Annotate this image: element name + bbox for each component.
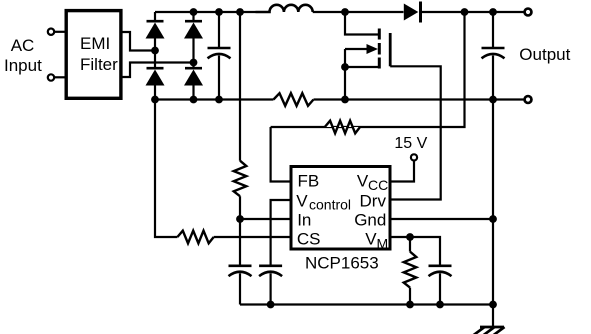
bridge diode D2 (left lower) bbox=[146, 68, 165, 85]
EMI filter block bbox=[66, 11, 121, 99]
op-amp U1 NCP1653 controller bbox=[291, 167, 390, 252]
wire D4 anode to return rail bbox=[192, 86, 194, 100]
capacitor C5 (VM) bbox=[429, 266, 452, 305]
wire FB divider from top rail bbox=[271, 12, 465, 127]
resistor R3 (feedback, drawn over wire) bbox=[325, 121, 360, 134]
15V supply terminal bbox=[411, 154, 417, 160]
wire In node down to C4 bbox=[239, 219, 241, 266]
AC input terminal bottom bbox=[48, 74, 54, 80]
wire ground rail bbox=[240, 303, 493, 305]
output terminal top bbox=[525, 9, 532, 16]
junction Q1 source / return rail bbox=[341, 96, 349, 104]
wire C2 return down to IC ground net bbox=[492, 100, 494, 305]
svg-text:control: control bbox=[309, 197, 351, 213]
chassis ground symbol bbox=[473, 327, 505, 334]
resistor R2 (current sense shunt, return rail) bbox=[274, 93, 314, 106]
output terminal bottom bbox=[525, 96, 532, 103]
capacitor C4 (In pin filter) bbox=[229, 266, 252, 305]
svg-text:AC: AC bbox=[11, 36, 35, 55]
wire top rail (rectified bus to output) bbox=[155, 11, 256, 13]
junction ground rail / C3 bbox=[267, 301, 275, 309]
junction top rail / C1 bbox=[215, 8, 223, 16]
wire Q1 gate to Drv pin bbox=[390, 66, 441, 199]
wire EMI filter lower output to bridge node B bbox=[120, 63, 191, 78]
svg-text:M: M bbox=[377, 236, 389, 252]
transistor Q1 body arrow bbox=[345, 44, 378, 54]
svg-text:In: In bbox=[297, 211, 311, 230]
resistor R4 (CS pin) bbox=[177, 231, 213, 244]
junction return rail / D4 bbox=[190, 96, 198, 104]
junction Q1 source / body bbox=[341, 63, 349, 71]
wire AC top terminal to EMI filter bbox=[54, 31, 66, 33]
capacitor C1 (rectified bus filter) bbox=[208, 12, 231, 100]
bridge diode D1 (left upper) bbox=[146, 12, 165, 39]
svg-text:V: V bbox=[365, 230, 377, 249]
junction ground rail / C5 bbox=[436, 301, 444, 309]
bridge diode D4 (right lower) bbox=[184, 68, 203, 85]
junction top rail / D3 cathode bbox=[190, 8, 198, 16]
AC input terminal top bbox=[48, 29, 54, 35]
junction return rail / C2 and ground run bbox=[489, 96, 497, 104]
svg-text:EMI: EMI bbox=[80, 34, 110, 53]
svg-text:NCP1653: NCP1653 bbox=[305, 254, 379, 273]
transistor Q1 channel segments bbox=[378, 29, 381, 69]
wire 15V to VCC pin bbox=[390, 161, 414, 182]
wire Q1 source to bottom channel segment bbox=[345, 66, 379, 68]
wire return rail left section bbox=[155, 98, 274, 100]
junction top rail / output capacitor bbox=[489, 8, 497, 16]
wire D2 anode to return rail bbox=[154, 86, 156, 100]
svg-text:Drv: Drv bbox=[360, 192, 387, 211]
wire In pin row bbox=[240, 218, 291, 220]
svg-text:FB: FB bbox=[298, 171, 320, 190]
svg-text:15 V: 15 V bbox=[394, 135, 427, 152]
wire to chassis ground bbox=[492, 305, 494, 328]
junction Gnd pin wire / ground run bbox=[489, 215, 497, 223]
svg-text:CC: CC bbox=[368, 177, 388, 193]
junction top rail / FB divider bbox=[461, 8, 469, 16]
wire AC bottom terminal to EMI filter bbox=[54, 76, 66, 78]
wire FB branch down to FB pin bbox=[271, 127, 290, 182]
wire R4 to CS pin bbox=[214, 236, 291, 238]
wire top rail down to R1 bbox=[239, 12, 241, 161]
wire node B to bridge diode D4 bbox=[192, 63, 194, 69]
junction top rail / Q1 drain tap bbox=[341, 8, 349, 16]
diode D5 (boost) bbox=[404, 2, 421, 23]
wire return rail right section bbox=[314, 98, 525, 100]
svg-text:V: V bbox=[296, 192, 308, 211]
wire node A to bridge diode D2 bbox=[154, 51, 156, 69]
junction ground rail / chassis ground drop bbox=[489, 301, 497, 309]
wire VM pin row bbox=[390, 237, 440, 266]
capacitor C2 (output bulk) bbox=[482, 12, 505, 100]
inductor L1 (boost choke) bbox=[256, 5, 313, 12]
wire Q1 drain bbox=[345, 12, 378, 35]
junction top rail / R1 feed bbox=[236, 8, 244, 16]
resistor R1 (In pin feed from bus) bbox=[234, 161, 247, 197]
svg-text:Filter: Filter bbox=[80, 55, 118, 74]
svg-text:Gnd: Gnd bbox=[354, 211, 386, 230]
svg-text:Input: Input bbox=[4, 56, 42, 75]
junction In pin / R1 / C4 bbox=[236, 215, 244, 223]
bridge diode D3 (right upper) bbox=[184, 12, 203, 39]
wire R1 to In pin node bbox=[239, 196, 241, 219]
resistor R5 (VM) bbox=[404, 252, 417, 288]
node B (right bridge midpoint) bbox=[190, 59, 198, 67]
junction return rail / D2 bbox=[151, 96, 159, 104]
wire Vcontrol pin to C3 bbox=[271, 200, 291, 266]
transistor Q1 gate bar bbox=[389, 33, 392, 66]
node A (left bridge midpoint) bbox=[151, 47, 159, 55]
label AC Input bbox=[4, 36, 42, 75]
capacitor C3 (Vcontrol) bbox=[259, 266, 282, 305]
wire D3 anode to node B bbox=[192, 39, 194, 63]
wire return rail tap down for CS bbox=[155, 100, 177, 238]
svg-text:Output: Output bbox=[519, 45, 570, 64]
wire R5 to ground rail bbox=[409, 288, 411, 305]
junction VM / R5 bbox=[406, 233, 414, 241]
wire D1 anode to node A bbox=[154, 39, 156, 51]
wire VM node down to R5 bbox=[409, 237, 411, 252]
wire Q1 source vertical bbox=[344, 49, 346, 100]
wire Gnd pin to ground run bbox=[390, 218, 493, 220]
wire EMI filter upper output to bridge node A bbox=[120, 32, 152, 51]
wire top rail after inductor bbox=[313, 11, 404, 13]
wire top rail after boost diode bbox=[422, 11, 524, 13]
junction return rail / C1 bbox=[215, 96, 223, 104]
junction ground rail / R5 bbox=[406, 301, 414, 309]
svg-text:CS: CS bbox=[297, 230, 321, 249]
